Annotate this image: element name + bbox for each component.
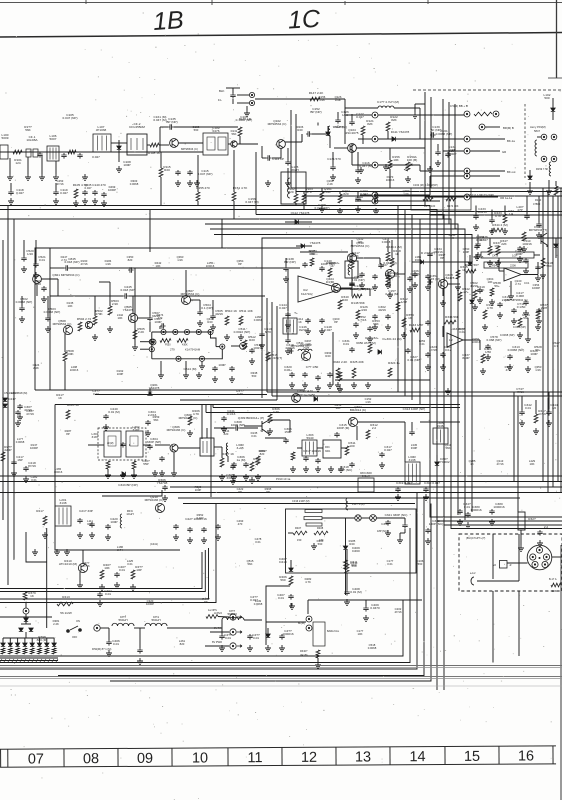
resistor R171 xyxy=(423,197,433,201)
transistor Q407 xyxy=(385,269,394,278)
svg-text:K1A7162: K1A7162 xyxy=(301,292,313,296)
svg-text:0.047: 0.047 xyxy=(476,238,484,242)
socket pin row top pair xyxy=(464,111,470,117)
svg-text:08: 08 xyxy=(83,751,99,767)
cap C123e xyxy=(535,265,540,271)
right bundle x558 xyxy=(557,196,559,482)
svg-text:09: 09 xyxy=(137,751,153,767)
svg-text:C140 470: C140 470 xyxy=(92,183,106,187)
svg-text:8V PWR: 8V PWR xyxy=(212,640,222,644)
res R116r xyxy=(483,310,487,319)
capacitor C140 xyxy=(319,266,324,272)
capacitor C148 xyxy=(319,318,324,324)
svg-text:0.0068: 0.0068 xyxy=(382,240,391,244)
cap row under Q510 xyxy=(359,272,364,278)
transistor Q221 xyxy=(33,275,42,284)
svg-text:82K: 82K xyxy=(367,122,373,126)
svg-text:56K: 56K xyxy=(325,190,331,194)
svg-text:5009: 5009 xyxy=(2,136,9,140)
transistor Q406 xyxy=(331,283,340,292)
coil L30R xyxy=(405,462,420,484)
wire opamp fb xyxy=(499,270,504,272)
svg-text:10uH: 10uH xyxy=(126,512,133,516)
transformer T107 xyxy=(93,134,111,152)
resistor R411 xyxy=(344,560,348,569)
svg-text:ON: ON xyxy=(76,619,80,623)
svg-text:2T9: 2T9 xyxy=(170,348,175,352)
resistor R487 xyxy=(386,276,390,285)
svg-text:47/16: 47/16 xyxy=(516,390,524,394)
wire nestL 3 xyxy=(0,548,209,599)
svg-text:3187: 3187 xyxy=(92,435,99,439)
resistor R406 xyxy=(289,576,293,585)
svg-text:10K (B): 10K (B) xyxy=(407,158,418,162)
svg-text:0.0068: 0.0068 xyxy=(368,646,377,650)
capacitor C106 xyxy=(61,153,66,159)
svg-text:C1?? 4.7uH (M): C1?? 4.7uH (M) xyxy=(377,100,399,104)
svg-text:820: 820 xyxy=(180,642,185,646)
bus rail y224 xyxy=(205,224,458,515)
svg-text:4.7K: 4.7K xyxy=(487,306,494,310)
capacitor C104 xyxy=(37,152,42,158)
svg-text:470: 470 xyxy=(238,522,243,526)
svg-text:1/50: 1/50 xyxy=(485,350,491,354)
svg-text:1/4: 1/4 xyxy=(509,212,514,216)
svg-text:10K: 10K xyxy=(530,462,535,466)
cap C121e xyxy=(536,222,541,228)
resistor R121 xyxy=(361,126,365,135)
capacitor C307m xyxy=(243,462,248,468)
svg-text:2.74: 2.74 xyxy=(515,282,521,286)
wire corner x26 xyxy=(26,532,47,562)
svg-text:47/16: 47/16 xyxy=(57,182,64,186)
IC feed caps C507 xyxy=(147,316,152,322)
resistor R217 xyxy=(43,516,47,525)
svg-text:470K: 470K xyxy=(95,312,103,316)
resistor R155 xyxy=(196,192,200,201)
bus corner feed xyxy=(255,152,257,215)
svg-text:MPS6534 (C): MPS6534 (C) xyxy=(181,292,200,296)
svg-text:56K: 56K xyxy=(523,316,529,320)
wire mid bottom bus xyxy=(308,599,422,601)
svg-text:GR: GR xyxy=(502,150,506,154)
capacitor C516 xyxy=(285,338,290,344)
svg-text:R307 1K: R307 1K xyxy=(222,452,235,456)
svg-text:C433: C433 xyxy=(492,254,499,258)
svg-text:5847: 5847 xyxy=(534,129,540,133)
RFC300 box xyxy=(358,478,374,492)
svg-text:560: 560 xyxy=(351,564,356,568)
svg-text:10K: 10K xyxy=(118,316,123,320)
cap C406b xyxy=(106,640,111,646)
cap row2 xyxy=(412,272,417,278)
svg-text:0.047: 0.047 xyxy=(356,115,364,119)
svg-text:Y62478: Y62478 xyxy=(310,241,321,245)
capacitor C317m xyxy=(497,302,502,308)
resistor R515 xyxy=(266,352,270,361)
array diode 1 xyxy=(1,643,5,646)
svg-text:87/16: 87/16 xyxy=(28,464,36,468)
svg-text:5007: 5007 xyxy=(50,137,57,141)
nest line 1 xyxy=(0,600,403,656)
coil L201 bottom xyxy=(55,506,71,526)
svg-text:1K: 1K xyxy=(470,462,474,466)
svg-text:2.2H: 2.2H xyxy=(541,306,548,310)
transistor Q104 xyxy=(348,144,357,153)
cap C404b xyxy=(114,572,119,578)
right bundle x553 xyxy=(552,196,554,487)
IC501 pad B2 xyxy=(199,356,204,361)
svg-text:10P: 10P xyxy=(136,568,142,572)
svg-text:0.01 (NP): 0.01 (NP) xyxy=(351,278,364,282)
wire TX driver xyxy=(265,437,286,439)
svg-text:470: 470 xyxy=(158,316,163,320)
svg-text:R344 56K: R344 56K xyxy=(445,315,460,319)
transformer T501 xyxy=(283,318,297,334)
capacitor C331 xyxy=(349,347,354,353)
capacitor C305 xyxy=(159,456,164,462)
wire control links xyxy=(266,621,306,623)
capacitor C502 xyxy=(19,306,24,312)
FET box MPC3001 xyxy=(323,440,341,458)
resistor R147 on rail xyxy=(310,97,320,101)
wire cross top with C845 xyxy=(50,267,64,269)
diode D407 xyxy=(468,262,472,265)
ground IC chain xyxy=(158,372,164,378)
wire Q104 xyxy=(334,147,348,149)
resistor R103 on rail xyxy=(302,194,306,203)
svg-text:MPS6534 (T): MPS6534 (T) xyxy=(529,228,547,232)
cap C353 xyxy=(367,326,372,332)
svg-text:10: 10 xyxy=(192,750,208,766)
bus rail y400 xyxy=(180,399,277,401)
vertical drop x412 xyxy=(411,215,413,401)
svg-text:6950 ATA?(M): 6950 ATA?(M) xyxy=(356,341,376,345)
nest vertical 6 xyxy=(436,482,438,691)
svg-text:0.01: 0.01 xyxy=(278,596,284,600)
coil L111 xyxy=(378,106,394,108)
coil L30Rb vertical xyxy=(226,443,228,456)
svg-text:16P: 16P xyxy=(17,458,23,462)
svg-text:OR 1a-1a: OR 1a-1a xyxy=(500,196,513,200)
svg-text:56K: 56K xyxy=(446,446,451,450)
plug pin column P101-2 xyxy=(372,136,378,142)
rail extension upper xyxy=(430,211,562,213)
wire R411 xyxy=(346,573,348,590)
coil link2 xyxy=(549,162,551,176)
resistor R413 xyxy=(57,602,73,606)
op-amp IC3 half xyxy=(447,333,463,347)
svg-text:56 1/2W: 56 1/2W xyxy=(60,611,72,615)
wire bundle vertical D xyxy=(448,102,450,224)
bus rail y209 xyxy=(0,210,562,522)
resistor R101 xyxy=(13,150,22,154)
vertical drop x150 xyxy=(149,210,151,253)
resistor R308 xyxy=(256,456,260,465)
block2 frame xyxy=(55,405,180,551)
right bundle x548 xyxy=(547,192,549,493)
wire D409 vertical xyxy=(345,518,347,546)
lamp circle 2 xyxy=(306,625,312,631)
block frame bottom xyxy=(35,389,305,391)
svg-text:14: 14 xyxy=(409,749,425,765)
svg-text:R325 20K: R325 20K xyxy=(350,360,365,364)
svg-text:C131 570: C131 570 xyxy=(327,157,341,161)
transistor Q408 xyxy=(438,279,447,288)
resistor R344 xyxy=(386,252,390,261)
plug pin column P101-5 xyxy=(372,198,378,204)
ground jack xyxy=(244,110,250,116)
coil L110 xyxy=(328,126,330,136)
svg-text:2.2K: 2.2K xyxy=(53,622,59,626)
resistor R172 xyxy=(446,197,456,201)
transistor Q101 xyxy=(170,139,179,148)
capacitor C141a xyxy=(101,192,106,198)
top edge tick marks xyxy=(86,0,428,5)
resistor R324 xyxy=(388,368,392,377)
cap C120e xyxy=(524,214,529,220)
resistor R409 xyxy=(100,570,104,579)
diode D341 xyxy=(470,300,474,303)
rail y407 xyxy=(213,407,460,409)
svg-text:1a (M): 1a (M) xyxy=(237,458,246,462)
svg-text:100K: 100K xyxy=(66,352,74,356)
svg-text:C310 0.047: C310 0.047 xyxy=(424,481,440,485)
capacitor C134 xyxy=(445,152,450,158)
svg-text:100P: 100P xyxy=(117,372,124,376)
svg-text:560uH: 560uH xyxy=(151,618,160,622)
capacitor C504 xyxy=(197,310,202,316)
svg-text:R218 1K: R218 1K xyxy=(67,403,80,407)
svg-text:150P: 150P xyxy=(284,430,291,434)
resistor R104 xyxy=(68,150,76,154)
svg-text:0.01: 0.01 xyxy=(105,592,111,596)
vertical drop x222 xyxy=(221,219,223,248)
svg-text:0.047: 0.047 xyxy=(384,448,392,452)
res R518 xyxy=(541,258,545,268)
nest line 2 xyxy=(0,528,410,663)
svg-text:220P: 220P xyxy=(4,448,11,452)
svg-text:2.74: 2.74 xyxy=(117,548,123,552)
wire rail drops xyxy=(295,188,297,194)
output jack TX xyxy=(230,614,236,620)
resistor R342b xyxy=(458,292,462,301)
svg-text:8P: 8P xyxy=(440,256,444,260)
capacitor C140a xyxy=(92,190,97,196)
cap C413 xyxy=(279,634,284,640)
svg-text:-R: -R xyxy=(509,565,512,567)
connector pin 2 xyxy=(530,554,536,560)
resistor R503 xyxy=(108,306,112,315)
small plug J xyxy=(471,577,474,585)
wire jack feed rail xyxy=(255,98,345,100)
svg-text:10K: 10K xyxy=(358,240,363,244)
coil RFC201 xyxy=(120,514,122,528)
svg-text:1C: 1C xyxy=(287,5,321,35)
svg-text:R154 4.7K: R154 4.7K xyxy=(233,186,249,190)
caps mid bottom xyxy=(219,634,224,640)
capacitor C324a xyxy=(440,352,445,358)
ground inner box row xyxy=(105,472,111,478)
svg-text:L30? 1 (M): L30? 1 (M) xyxy=(352,502,365,506)
ground row front-end xyxy=(7,174,13,180)
resistor feedback R344b xyxy=(444,320,456,324)
svg-text:100P: 100P xyxy=(110,520,117,524)
svg-text:1/16: 1/16 xyxy=(27,252,33,256)
resistor R309 cap xyxy=(162,485,167,491)
svg-text:330P: 330P xyxy=(226,476,233,480)
svg-text:T+: T+ xyxy=(294,311,298,315)
lamp PL2 xyxy=(370,515,377,522)
bus rail y205 xyxy=(0,206,562,518)
capacitor C305b xyxy=(230,464,235,470)
capacitor C318 xyxy=(349,462,354,468)
coil L305 xyxy=(433,428,448,444)
wire opamp out xyxy=(342,288,370,290)
lamp circle 1 xyxy=(306,616,312,622)
resistor R551 loop xyxy=(177,339,188,343)
svg-text:CC1: CC1 xyxy=(524,281,530,285)
svg-text:R/W(M) 8? 1 (M): R/W(M) 8? 1 (M) xyxy=(92,647,111,651)
svg-text:4.7/16: 4.7/16 xyxy=(358,318,367,322)
block2 frame right xyxy=(210,405,212,498)
svg-text:4/16: 4/16 xyxy=(361,308,367,312)
svg-text:1000/16: 1000/16 xyxy=(493,505,504,509)
svg-text:10K: 10K xyxy=(358,632,363,636)
svg-text:100/16: 100/16 xyxy=(206,264,215,268)
nest line 3 xyxy=(0,493,417,670)
wire box vertical 2 xyxy=(518,534,520,581)
resistor R403b xyxy=(131,570,135,579)
resistor R302 inner xyxy=(132,461,136,469)
pot VR401 xyxy=(316,650,320,658)
svg-text:K1A7541AM: K1A7541AM xyxy=(185,348,201,352)
wire squelch links xyxy=(340,287,352,289)
resistor R408m xyxy=(314,531,328,535)
bus rail y219 xyxy=(0,219,562,529)
resistor right edge xyxy=(554,186,558,195)
svg-text:220K: 220K xyxy=(510,264,516,268)
resistor R417 xyxy=(350,260,354,269)
capacitor C240 xyxy=(103,414,108,420)
wire Q102 emitter xyxy=(280,148,282,158)
svg-text:0.047 (NP): 0.047 (NP) xyxy=(63,116,78,120)
wire IF strip xyxy=(337,112,339,118)
capacitor C334 xyxy=(427,252,432,258)
svg-text:40/16: 40/16 xyxy=(215,312,223,316)
svg-text:100P: 100P xyxy=(154,320,161,324)
svg-text:D+301 24 (M): D+301 24 (M) xyxy=(382,337,401,341)
svg-text:BK-1a: BK-1a xyxy=(507,139,515,143)
right page edge vertical xyxy=(560,545,562,800)
svg-text:0.047: 0.047 xyxy=(16,191,24,195)
wire squelch top row xyxy=(300,251,348,253)
ground rightmid row xyxy=(480,368,486,374)
inner FET dashed box xyxy=(98,428,146,460)
svg-text:0.047: 0.047 xyxy=(92,155,100,159)
svg-text:47/16: 47/16 xyxy=(81,262,88,266)
capacitor C317 xyxy=(379,452,384,458)
diode D113 xyxy=(301,244,304,248)
svg-text:0.06+: 0.06+ xyxy=(284,368,292,372)
wire Q stage links xyxy=(36,283,38,296)
resistor R108b xyxy=(328,268,332,277)
plug pin column P101-3 xyxy=(372,162,378,168)
bus rail y392 xyxy=(267,391,562,393)
resistor R329 xyxy=(481,354,485,363)
svg-text:0.0068 (NP): 0.0068 (NP) xyxy=(44,310,61,314)
svg-text:0.047: 0.047 xyxy=(60,191,68,195)
svg-text:4.7K: 4.7K xyxy=(305,580,311,584)
diode D110 xyxy=(326,132,330,135)
svg-text:BK out: BK out xyxy=(507,170,516,174)
svg-text:2.2: 2.2 xyxy=(544,525,549,529)
cap cluster under Q511 xyxy=(302,372,307,378)
svg-text:8V PA: 8V PA xyxy=(214,626,221,630)
svg-text:AF(M): AF(M) xyxy=(107,442,114,445)
plug pair top xyxy=(541,134,547,140)
svg-text:100/16: 100/16 xyxy=(70,368,79,372)
bus rail y498 xyxy=(178,497,520,499)
wire jacks xyxy=(218,616,229,619)
wire lamp feeds xyxy=(322,517,355,519)
bus rail y229 xyxy=(210,229,465,520)
resistor R407m xyxy=(293,531,307,535)
diode D151 xyxy=(551,108,555,111)
right rail third xyxy=(302,195,562,197)
svg-text:560: 560 xyxy=(318,542,323,546)
connector pin 5 xyxy=(542,561,548,567)
meter box frame xyxy=(286,509,417,573)
capacitor C406m xyxy=(407,276,412,282)
bus line y617 xyxy=(0,616,52,618)
ground assy pair xyxy=(527,188,533,194)
left column R218 xyxy=(1,452,5,461)
bottom grid ruler band xyxy=(0,746,556,768)
resistor R505 xyxy=(133,330,137,339)
wire bundle vertical B xyxy=(430,97,432,188)
cap C521 xyxy=(33,262,38,268)
resistor R342 xyxy=(396,302,400,311)
svg-text:ATC1010 (M): ATC1010 (M) xyxy=(59,562,77,566)
cap C512r xyxy=(511,308,516,314)
cap C220 row xyxy=(105,524,110,530)
svg-text:MPS6534 (C): MPS6534 (C) xyxy=(351,244,370,248)
bar resistor stack 1 xyxy=(305,510,322,513)
bus rail y476 xyxy=(0,475,562,477)
plug pair bottom xyxy=(541,156,547,162)
svg-text:(BU)C?uP?+(?): (BU)C?uP?+(?) xyxy=(466,536,485,540)
svg-text:MPS6436 (C): MPS6436 (C) xyxy=(179,416,198,420)
svg-text:47/16: 47/16 xyxy=(24,408,32,412)
ground right edge xyxy=(525,336,531,342)
block frame inner vertical xyxy=(49,248,51,390)
FET can L301 xyxy=(104,431,121,457)
svg-text:0.01: 0.01 xyxy=(309,252,315,256)
svg-text:R20: R20 xyxy=(325,354,331,358)
ground C240 xyxy=(103,424,109,430)
svg-text:3187: 3187 xyxy=(133,428,140,432)
svg-text:100/16: 100/16 xyxy=(477,210,487,214)
svg-text:C?? 1/50: C?? 1/50 xyxy=(306,365,319,369)
svg-text:56K: 56K xyxy=(232,132,237,136)
bar resistor stack 2 xyxy=(304,517,322,520)
wire box2 row xyxy=(121,444,123,446)
right B+ rail lower xyxy=(296,114,562,192)
svg-text:100: 100 xyxy=(254,460,259,464)
svg-text:R20: R20 xyxy=(342,298,348,302)
svg-text:55P: 55P xyxy=(143,462,149,466)
